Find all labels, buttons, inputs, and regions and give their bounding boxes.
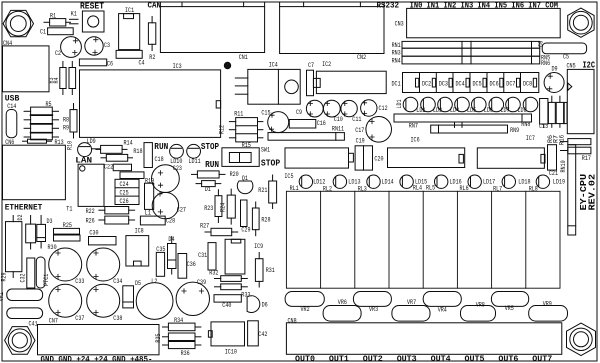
svg-text:LD19: LD19	[553, 178, 565, 185]
varistor VR4	[423, 292, 461, 314]
capacitor C7	[307, 62, 315, 96]
capacitor C10	[323, 100, 343, 123]
svg-text:C26: C26	[120, 198, 129, 205]
capacitor C30	[89, 230, 117, 245]
svg-text:DC8: DC8	[523, 80, 532, 87]
svg-text:LD8: LD8	[518, 107, 527, 114]
svg-text:IC8: IC8	[135, 228, 144, 235]
capacitor C39	[176, 279, 209, 316]
svg-text:VR7: VR7	[407, 299, 416, 306]
svg-text:VR5: VR5	[505, 305, 514, 312]
capacitor C19	[355, 138, 365, 171]
capacitor C37	[49, 284, 85, 322]
varistor VR8	[461, 301, 496, 321]
resistor R26	[86, 216, 135, 225]
svg-text:IC3: IC3	[173, 63, 182, 70]
svg-text:CN5: CN5	[567, 62, 576, 69]
svg-text:R33: R33	[241, 291, 250, 298]
svg-text:C9: C9	[296, 109, 302, 116]
svg-text:LD7: LD7	[501, 107, 510, 114]
svg-text:IC6: IC6	[411, 136, 420, 143]
capacitor C34	[87, 248, 123, 285]
svg-text:C27: C27	[177, 207, 186, 214]
svg-text:C40: C40	[222, 302, 231, 309]
svg-text:C31: C31	[198, 252, 207, 259]
svg-text:VR9: VR9	[543, 301, 552, 308]
svg-text:C17: C17	[355, 127, 364, 134]
svg-text:R20: R20	[230, 171, 239, 178]
connector CN6 (ethernet)	[3, 139, 66, 200]
resistor network RN11	[268, 125, 344, 140]
svg-text:C30: C30	[89, 230, 98, 237]
svg-text:IC1: IC1	[125, 7, 134, 14]
svg-text:R24: R24	[220, 203, 227, 212]
svg-text:C1: C1	[40, 28, 46, 35]
svg-text:RN8: RN8	[521, 121, 530, 128]
capacitor C21	[548, 145, 559, 177]
optocoupler strip DC1-DC8	[392, 73, 539, 93]
svg-text:L2: L2	[151, 278, 157, 285]
resistor network RN3	[392, 48, 540, 56]
svg-text:R34: R34	[174, 317, 183, 324]
capacitor C5	[542, 43, 586, 61]
svg-text:D9: D9	[552, 66, 558, 73]
svg-text:C4: C4	[139, 60, 145, 67]
mounting hole top-left	[3, 10, 33, 36]
svg-text:CN8: CN8	[288, 318, 297, 325]
varistor VR2	[285, 292, 324, 314]
svg-text:T1: T1	[66, 206, 72, 213]
connector CN4	[3, 40, 50, 92]
svg-text:LD18: LD18	[518, 178, 530, 185]
svg-text:LD5: LD5	[467, 107, 476, 114]
svg-text:D2: D2	[17, 214, 24, 220]
reset button SW	[82, 11, 104, 32]
capacitor C29	[241, 200, 251, 233]
svg-text:C11: C11	[352, 116, 361, 123]
svg-text:LD14: LD14	[382, 178, 394, 185]
svg-text:R1: R1	[50, 12, 56, 19]
svg-text:R18: R18	[133, 148, 142, 155]
svg-text:C36: C36	[187, 261, 196, 268]
svg-text:RN1: RN1	[392, 42, 401, 49]
svg-text:C33: C33	[75, 278, 84, 285]
svg-text:R23: R23	[204, 205, 213, 212]
RN dividers	[462, 41, 532, 64]
resistor R22	[86, 207, 135, 216]
capacitor C42	[248, 321, 268, 346]
svg-text:C32: C32	[20, 273, 27, 282]
transformer T1	[66, 164, 104, 213]
svg-text:IC5: IC5	[284, 173, 293, 180]
svg-text:R5: R5	[46, 101, 52, 108]
svg-text:R29: R29	[1, 272, 8, 281]
svg-text:LD11: LD11	[189, 158, 201, 165]
svg-text:IC4: IC4	[269, 61, 278, 68]
resistor R3	[60, 62, 66, 95]
svg-text:RN6: RN6	[541, 60, 550, 67]
switch SW1	[222, 147, 270, 167]
resistor R25	[54, 222, 80, 234]
resistor R28	[252, 202, 270, 236]
svg-text:RN9: RN9	[510, 127, 519, 134]
GND +24 labels	[41, 354, 153, 363]
svg-text:LD1: LD1	[396, 99, 403, 108]
svg-text:OUT5: OUT5	[465, 354, 485, 363]
IC U IC3	[80, 63, 221, 137]
svg-text:VR4: VR4	[438, 306, 447, 313]
mounting hole top-right	[568, 8, 594, 37]
svg-text:C23: C23	[173, 165, 182, 172]
capacitor C4 (under IC1)	[116, 50, 145, 66]
svg-text:IC9: IC9	[254, 243, 263, 250]
svg-text:OUT3: OUT3	[397, 354, 417, 363]
diode D1	[196, 181, 221, 194]
varistor VR5	[491, 292, 528, 313]
svg-text:IC7: IC7	[526, 135, 535, 142]
LD12-LD19 labels	[313, 178, 565, 185]
IN0-COM labels	[410, 1, 559, 10]
svg-text:OUT1: OUT1	[329, 354, 349, 363]
transistor Q1	[237, 175, 253, 193]
LED LD11	[187, 144, 201, 165]
resistor R34	[163, 317, 201, 331]
svg-text:CN3: CN3	[395, 20, 404, 27]
I2C label	[583, 61, 596, 71]
svg-text:C10: C10	[334, 116, 343, 123]
svg-text:REV.02: REV.02	[588, 174, 598, 211]
svg-text:CN1: CN1	[239, 54, 248, 61]
svg-text:C21: C21	[549, 170, 558, 177]
connector CN8 (outputs)	[286, 318, 561, 355]
svg-text:C29: C29	[241, 226, 250, 233]
svg-text:C16: C16	[317, 120, 326, 127]
svg-text:R27: R27	[200, 223, 209, 230]
svg-text:DC4: DC4	[456, 80, 465, 87]
varistor VR1	[0, 289, 43, 301]
svg-text:CAN: CAN	[148, 0, 162, 10]
svg-text:RN4: RN4	[392, 57, 401, 64]
svg-text:CN6: CN6	[5, 139, 14, 146]
svg-text:R16: R16	[558, 135, 565, 145]
capacitor C16	[289, 120, 326, 129]
capacitor C36	[178, 254, 196, 279]
svg-text:C24: C24	[120, 181, 129, 188]
resistor R32	[209, 270, 247, 282]
resistor R21	[258, 175, 276, 209]
svg-text:C25: C25	[120, 190, 129, 197]
svg-text:C38: C38	[113, 315, 122, 322]
svg-text:LD6: LD6	[484, 107, 493, 114]
svg-text:LD10: LD10	[170, 158, 182, 165]
capacitor C12	[361, 100, 388, 116]
relays RL1-RL8 bodies	[286, 191, 560, 288]
LED row LD1-LD8	[396, 97, 538, 114]
RUN label 2	[205, 160, 219, 170]
IC U IC9	[225, 239, 263, 274]
svg-text:SW1: SW1	[261, 147, 270, 154]
svg-text:R36: R36	[181, 350, 190, 357]
varistor VR3	[353, 292, 391, 314]
resistor R18	[101, 148, 143, 161]
resistor R30	[48, 235, 81, 251]
RN7 leads	[455, 122, 463, 127]
svg-text:ETHERNET: ETHERNET	[5, 204, 43, 213]
R3 R4 labels	[48, 77, 60, 83]
capacitor C27	[152, 192, 186, 219]
svg-text:C8: C8	[538, 41, 545, 47]
svg-text:RL4: RL4	[413, 184, 422, 191]
svg-text:I2C: I2C	[583, 61, 596, 71]
svg-text:R26: R26	[86, 218, 95, 225]
svg-text:CN2: CN2	[357, 54, 366, 61]
RESET label	[80, 2, 105, 12]
relay K1 pads	[70, 11, 79, 24]
svg-text:C19: C19	[356, 138, 365, 145]
svg-text:C28: C28	[166, 218, 175, 225]
resistor R36	[163, 342, 201, 358]
svg-text:OUT2: OUT2	[363, 354, 383, 363]
resistor R33	[215, 284, 251, 298]
capacitor C9	[296, 100, 323, 117]
diode bar (mid)	[26, 216, 36, 250]
resistor R2	[148, 17, 155, 61]
capacitor C14	[6, 103, 17, 138]
capacitor C6	[79, 59, 113, 67]
svg-text:STOP: STOP	[201, 142, 219, 152]
svg-text:DC2: DC2	[422, 80, 431, 87]
resistor R35	[155, 333, 201, 343]
capacitor C3	[85, 37, 111, 55]
svg-text:RN11: RN11	[332, 125, 344, 132]
diode D6	[247, 296, 268, 313]
RUN label 1	[154, 142, 168, 152]
svg-text:RUN: RUN	[205, 160, 219, 170]
resistor array R5	[24, 101, 58, 140]
RS232 label	[377, 1, 400, 10]
svg-text:R31: R31	[266, 267, 275, 274]
svg-text:C18: C18	[155, 156, 164, 163]
capacitor C2	[55, 37, 81, 58]
resistor R4	[69, 62, 76, 95]
svg-text:R19: R19	[145, 177, 154, 184]
mounting hole bottom-left	[5, 327, 35, 355]
resistor R7	[556, 96, 563, 127]
svg-text:RS232: RS232	[377, 1, 400, 10]
resistor R10 label	[66, 141, 73, 150]
capacitor C23 bar	[120, 172, 144, 179]
capacitor C33	[49, 248, 85, 285]
LED LD9	[78, 138, 100, 157]
resistor network RN9	[431, 125, 520, 134]
STOP label 2	[261, 159, 280, 169]
svg-text:C7: C7	[308, 62, 314, 69]
inductor L1 label	[145, 210, 151, 217]
svg-text:R32: R32	[209, 270, 218, 277]
IC U IC2	[313, 61, 386, 94]
svg-text:C2: C2	[55, 50, 61, 57]
resistor network RN10	[560, 145, 576, 235]
svg-text:L1: L1	[145, 210, 151, 217]
capacitor C23	[152, 165, 183, 193]
svg-text:R30: R30	[48, 244, 57, 251]
svg-text:VR1: VR1	[0, 292, 5, 301]
svg-text:OUT7: OUT7	[532, 354, 552, 363]
svg-text:GND GND +24 +24 GND +485-: GND GND +24 +24 GND +485-	[41, 354, 153, 363]
resistor R16	[564, 102, 567, 123]
svg-text:C35: C35	[156, 246, 165, 253]
svg-text:RN3: RN3	[392, 50, 401, 57]
svg-text:C22: C22	[104, 164, 113, 171]
svg-text:R4: R4	[53, 77, 60, 83]
svg-text:IC2: IC2	[322, 61, 331, 68]
OUT0-OUT7 labels	[295, 354, 552, 363]
capacitors C24 C25 C26	[115, 179, 139, 205]
svg-text:C34: C34	[113, 278, 122, 285]
resistor network RN7	[394, 114, 532, 129]
capacitor C32	[20, 258, 35, 288]
USB label	[5, 95, 20, 104]
svg-text:C6: C6	[107, 60, 113, 67]
svg-text:DC5: DC5	[473, 80, 482, 87]
connector CN5 (I2C)	[567, 62, 595, 133]
resistor network RN4	[392, 56, 540, 64]
svg-text:R17: R17	[582, 155, 591, 162]
svg-text:C41: C41	[29, 321, 38, 328]
capacitor C35	[156, 246, 165, 276]
capacitor C11	[341, 100, 362, 122]
diode D2 / resistor R29	[1, 214, 25, 281]
svg-text:VR6: VR6	[338, 299, 347, 306]
svg-text:OUT6: OUT6	[498, 354, 518, 363]
svg-text:C13: C13	[539, 123, 548, 130]
svg-text:LD12: LD12	[313, 178, 325, 185]
resistor R19	[145, 177, 155, 209]
svg-text:R10: R10	[66, 141, 73, 150]
capacitor C22	[104, 164, 132, 171]
svg-text:D1: D1	[205, 186, 211, 193]
resistor R17	[561, 139, 592, 162]
IC U IC6	[388, 136, 465, 167]
svg-text:LD9: LD9	[87, 138, 96, 145]
IC U IC7	[477, 135, 545, 168]
svg-text:R9: R9	[63, 125, 69, 132]
thermistor PTC1	[36, 257, 50, 288]
svg-text:C39: C39	[197, 279, 206, 286]
svg-text:C5: C5	[563, 54, 569, 61]
svg-text:VR3: VR3	[369, 306, 378, 313]
svg-text:DC7: DC7	[506, 80, 515, 87]
svg-text:D3: D3	[47, 218, 53, 225]
capacitor C28	[140, 216, 175, 225]
svg-text:R12: R12	[219, 125, 226, 134]
IC U IC1	[119, 7, 140, 50]
resistor R6	[548, 96, 555, 127]
capacitor C40	[214, 295, 241, 310]
svg-text:LD3: LD3	[433, 107, 442, 114]
inductor L2	[136, 278, 173, 320]
RN6 label	[541, 60, 550, 67]
LED LD10	[170, 144, 184, 165]
svg-text:R25: R25	[63, 222, 72, 229]
svg-text:C3: C3	[104, 42, 110, 49]
diode D5	[123, 280, 142, 308]
svg-text:RUN: RUN	[154, 142, 168, 152]
svg-text:RN10: RN10	[560, 160, 567, 172]
connector CN1 (CAN)	[160, 2, 264, 61]
svg-text:IN0 IN1 IN2 IN3 IN4 IN5 IN6 IN: IN0 IN1 IN2 IN3 IN4 IN5 IN6 IN7 COM	[410, 1, 559, 10]
resistor R23	[204, 190, 222, 223]
resistor R14	[96, 139, 133, 153]
RN5 label	[541, 55, 550, 62]
svg-text:RN7: RN7	[409, 122, 418, 129]
svg-text:R14: R14	[124, 139, 133, 146]
svg-text:R21: R21	[258, 187, 267, 194]
STOP label 1	[201, 142, 219, 152]
svg-text:C15: C15	[261, 109, 270, 116]
capacitor C31	[198, 243, 216, 270]
IC U IC4	[235, 61, 300, 104]
diode D3	[37, 216, 53, 249]
varistor stadium 2	[7, 308, 43, 319]
svg-text:C42: C42	[258, 331, 267, 338]
RL1-RL8 labels	[290, 184, 538, 192]
mounting hole bottom-right	[567, 323, 596, 355]
ETHERNET label	[5, 204, 43, 213]
svg-text:DC3: DC3	[439, 80, 448, 87]
svg-text:CN4: CN4	[3, 40, 12, 47]
R6 R7 R16 labels	[547, 135, 566, 145]
svg-text:VR8: VR8	[476, 301, 485, 308]
svg-text:R22: R22	[86, 208, 95, 215]
fiducial dot	[224, 62, 230, 68]
svg-text:LD17: LD17	[483, 178, 495, 185]
svg-text:R28: R28	[261, 217, 270, 224]
svg-text:R2: R2	[149, 54, 155, 61]
svg-text:RL6: RL6	[460, 185, 469, 192]
svg-text:CN7: CN7	[49, 317, 58, 324]
svg-text:R11: R11	[234, 111, 243, 118]
connector CN2 (RS232)	[280, 2, 384, 61]
resistor R13	[23, 139, 64, 146]
svg-text:C37: C37	[75, 315, 84, 322]
varistor VR6	[323, 299, 361, 321]
resistor R8 R9	[63, 104, 77, 139]
svg-text:LD2: LD2	[416, 107, 425, 114]
capacitor C38	[87, 284, 123, 322]
svg-text:K1: K1	[71, 11, 77, 18]
resistor R31	[255, 253, 275, 288]
svg-text:VR2: VR2	[301, 306, 310, 313]
capacitor C18	[144, 143, 164, 168]
resistor block R11 R12 R15	[219, 111, 263, 149]
svg-text:OUT0: OUT0	[295, 354, 315, 363]
svg-text:RL5: RL5	[426, 184, 435, 191]
resistor network RN1	[392, 41, 540, 48]
EY-CPU REV.02 label	[579, 174, 598, 211]
svg-text:R8: R8	[63, 116, 69, 123]
connector CN3 (inputs)	[395, 8, 561, 37]
svg-text:D4: D4	[168, 236, 174, 243]
capacitor C13	[539, 99, 548, 130]
capacitor C15	[261, 109, 288, 132]
resistor R20	[192, 171, 239, 178]
capacitor C8 (rotated label)	[538, 41, 545, 47]
resistor R27	[200, 223, 238, 236]
svg-text:STOP: STOP	[261, 159, 280, 169]
svg-text:IC10: IC10	[225, 349, 237, 356]
IC U IC5	[284, 148, 353, 180]
